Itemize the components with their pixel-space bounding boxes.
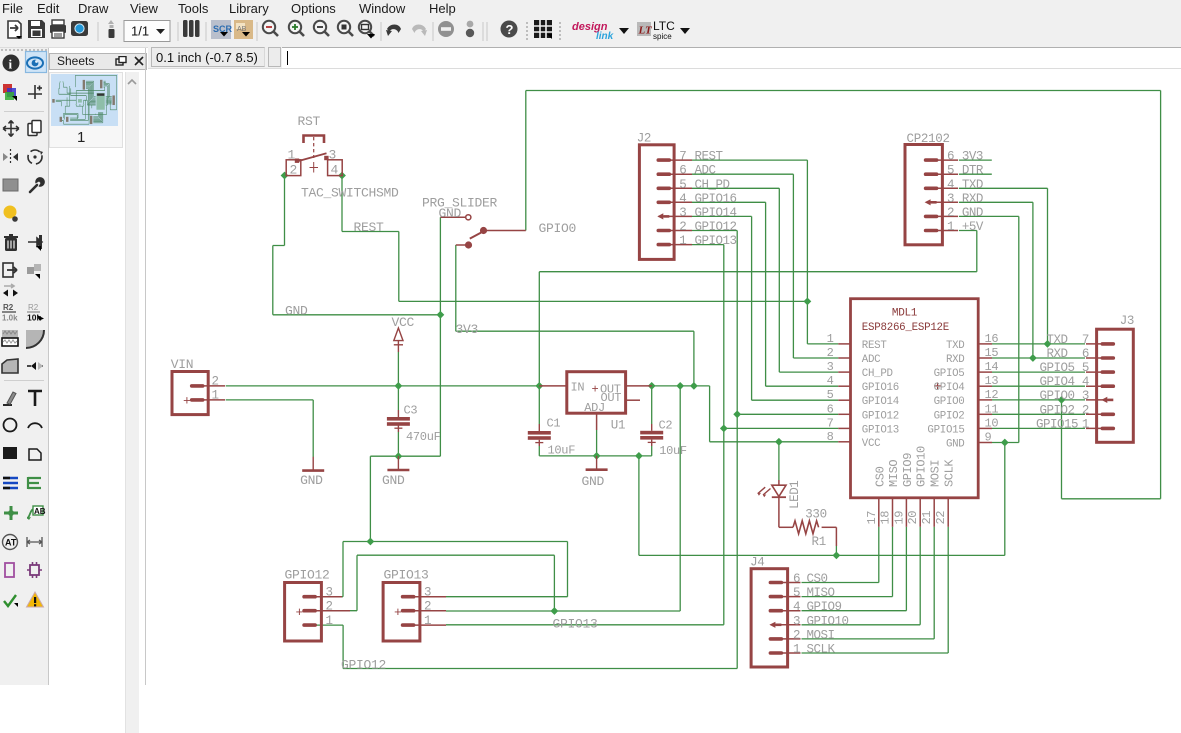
svg-text:GND: GND <box>439 206 462 221</box>
svg-text:4: 4 <box>793 600 800 614</box>
svg-text:J3: J3 <box>1120 314 1134 328</box>
svg-text:3: 3 <box>793 614 800 628</box>
svg-text:17: 17 <box>865 511 879 525</box>
svg-text:GPIO15: GPIO15 <box>927 424 964 436</box>
svg-text:VIN: VIN <box>171 357 194 372</box>
svg-text:ESP8266_ESP12E: ESP8266_ESP12E <box>862 322 949 334</box>
svg-text:GPIO0: GPIO0 <box>1039 389 1074 403</box>
svg-text:TXD: TXD <box>962 178 983 192</box>
svg-text:2: 2 <box>827 346 834 360</box>
svg-text:LT: LT <box>638 25 654 37</box>
svg-text:GPIO12: GPIO12 <box>862 410 899 422</box>
svg-text:GPIO10: GPIO10 <box>807 614 849 628</box>
svg-text:IN: IN <box>571 381 585 395</box>
svg-text:7: 7 <box>827 416 834 430</box>
svg-text:10uF: 10uF <box>548 444 576 458</box>
svg-text:+: + <box>592 382 599 396</box>
svg-text:1: 1 <box>793 643 800 657</box>
svg-text:RXD: RXD <box>946 354 965 366</box>
svg-text:TXD: TXD <box>1046 333 1067 347</box>
svg-text:CP2102: CP2102 <box>907 132 950 146</box>
svg-text:GND: GND <box>300 473 323 488</box>
svg-text:GPIO9: GPIO9 <box>807 600 842 614</box>
svg-text:GPIO13: GPIO13 <box>862 424 899 436</box>
svg-text:ADJ: ADJ <box>584 401 605 415</box>
svg-text:SCLK: SCLK <box>807 643 836 657</box>
svg-text:SCLK: SCLK <box>943 459 957 487</box>
svg-text:CS0: CS0 <box>873 466 887 487</box>
svg-text:VCC: VCC <box>862 438 881 450</box>
svg-text:1: 1 <box>212 389 219 403</box>
svg-text:C1: C1 <box>547 417 561 431</box>
svg-text:GPIO10: GPIO10 <box>915 446 929 487</box>
svg-text:GPIO0: GPIO0 <box>539 221 577 236</box>
svg-text:3: 3 <box>424 586 431 600</box>
svg-text:GPIO2: GPIO2 <box>934 410 965 422</box>
svg-text:3V3: 3V3 <box>962 150 983 164</box>
svg-text:GPIO5: GPIO5 <box>934 368 965 380</box>
svg-text:MISO: MISO <box>807 586 835 600</box>
svg-text:RST: RST <box>298 114 321 129</box>
svg-text:2: 2 <box>679 220 686 234</box>
svg-text:2: 2 <box>793 628 800 642</box>
svg-text:21: 21 <box>920 511 934 525</box>
svg-text:MISO: MISO <box>887 460 901 487</box>
svg-text:9: 9 <box>985 431 992 445</box>
svg-text:6: 6 <box>947 150 954 164</box>
svg-text:GPIO15: GPIO15 <box>1036 417 1078 431</box>
svg-text:13: 13 <box>985 374 999 388</box>
svg-text:2: 2 <box>212 375 219 389</box>
svg-text:1: 1 <box>679 234 686 248</box>
svg-text:CH_PD: CH_PD <box>695 178 730 192</box>
svg-text:AT: AT <box>5 538 17 548</box>
svg-text:GPIO5: GPIO5 <box>1039 361 1074 375</box>
svg-text:5: 5 <box>679 178 686 192</box>
svg-text:3: 3 <box>329 148 337 163</box>
svg-text:GND: GND <box>582 474 605 489</box>
svg-text:5: 5 <box>827 388 834 402</box>
svg-text:12: 12 <box>985 388 999 402</box>
svg-text:TAC_SWITCHSMD: TAC_SWITCHSMD <box>301 186 399 201</box>
svg-text:1: 1 <box>1082 417 1089 431</box>
svg-text:1: 1 <box>827 332 834 346</box>
svg-text:REST: REST <box>862 340 888 352</box>
svg-text:spice: spice <box>653 32 672 41</box>
svg-text:330: 330 <box>805 508 827 522</box>
svg-text:DTR: DTR <box>962 164 984 178</box>
svg-text:470uF: 470uF <box>406 430 441 444</box>
svg-text:1.0k: 1.0k <box>2 314 18 323</box>
svg-text:AB: AB <box>34 507 46 516</box>
svg-text:5: 5 <box>793 586 800 600</box>
svg-text:15: 15 <box>985 346 999 360</box>
svg-text:7: 7 <box>679 150 686 164</box>
svg-text:2: 2 <box>947 206 954 220</box>
svg-text:R1: R1 <box>812 535 826 549</box>
svg-text:AB: AB <box>237 26 247 33</box>
svg-text:2: 2 <box>424 600 431 614</box>
svg-text:GND: GND <box>285 304 308 319</box>
svg-text:CS0: CS0 <box>807 572 828 586</box>
svg-text:1: 1 <box>326 614 333 628</box>
svg-text:1: 1 <box>288 148 296 163</box>
svg-text:GPIO14: GPIO14 <box>695 206 737 220</box>
svg-text:GND: GND <box>382 473 405 488</box>
svg-text:REST: REST <box>695 150 724 164</box>
svg-text:+: + <box>296 605 304 620</box>
svg-text:6: 6 <box>1082 347 1089 361</box>
svg-text:4: 4 <box>679 192 686 206</box>
svg-text:1/1: 1/1 <box>131 24 149 39</box>
svg-text:2: 2 <box>1082 403 1089 417</box>
svg-text:22: 22 <box>934 511 948 525</box>
svg-text:ADC: ADC <box>695 164 716 178</box>
svg-text:6: 6 <box>793 572 800 586</box>
svg-text:GPIO4: GPIO4 <box>1039 375 1074 389</box>
svg-text:GPIO13: GPIO13 <box>384 568 429 583</box>
svg-text:RXD: RXD <box>1046 347 1067 361</box>
svg-text:3: 3 <box>326 586 333 600</box>
svg-text:C3: C3 <box>404 403 418 417</box>
svg-text:J2: J2 <box>637 132 651 146</box>
svg-text:J4: J4 <box>750 556 764 570</box>
svg-text:CH_PD: CH_PD <box>862 368 893 380</box>
svg-text:6: 6 <box>679 164 686 178</box>
svg-text:VCC: VCC <box>392 315 415 330</box>
svg-text:1: 1 <box>424 614 431 628</box>
svg-text:19: 19 <box>892 511 906 525</box>
svg-text:GPIO0: GPIO0 <box>934 396 965 408</box>
svg-text:MOSI: MOSI <box>807 628 835 642</box>
svg-text:4: 4 <box>1082 375 1089 389</box>
svg-text:ADC: ADC <box>862 354 881 366</box>
svg-text:5: 5 <box>1082 361 1089 375</box>
svg-text:7: 7 <box>1082 333 1089 347</box>
svg-text:GPIO13: GPIO13 <box>695 234 737 248</box>
svg-text:R2: R2 <box>28 303 39 312</box>
svg-text:8: 8 <box>827 430 834 444</box>
svg-text:i: i <box>9 57 13 72</box>
svg-text:GND: GND <box>962 206 983 220</box>
svg-text:5: 5 <box>947 164 954 178</box>
svg-text:3: 3 <box>947 192 954 206</box>
svg-text:3: 3 <box>827 360 834 374</box>
svg-text:GPIO4: GPIO4 <box>934 382 965 394</box>
svg-text:GPIO13: GPIO13 <box>553 617 598 632</box>
svg-text:GPIO12: GPIO12 <box>695 220 737 234</box>
svg-text:GPIO16: GPIO16 <box>695 192 737 206</box>
svg-text:+: + <box>183 394 191 409</box>
svg-text:1: 1 <box>947 220 954 234</box>
svg-text:+5V: +5V <box>962 220 984 234</box>
svg-text:+: + <box>394 605 402 620</box>
svg-text:10uF: 10uF <box>659 444 687 458</box>
svg-text:GPIO16: GPIO16 <box>862 382 899 394</box>
svg-text:TXD: TXD <box>946 340 965 352</box>
svg-text:4: 4 <box>827 374 834 388</box>
svg-text:R2: R2 <box>3 303 14 312</box>
svg-text:14: 14 <box>985 360 999 374</box>
svg-text:4: 4 <box>331 163 339 178</box>
svg-text:?: ? <box>506 22 514 37</box>
svg-text:C2: C2 <box>659 418 673 432</box>
svg-text:6: 6 <box>827 402 834 416</box>
svg-text:16: 16 <box>985 332 999 346</box>
svg-text:RXD: RXD <box>962 192 983 206</box>
svg-text:GND: GND <box>946 439 965 451</box>
svg-text:link: link <box>596 31 614 42</box>
svg-text:4: 4 <box>947 178 954 192</box>
svg-text:3: 3 <box>679 206 686 220</box>
svg-text:GPIO9: GPIO9 <box>901 453 915 487</box>
svg-text:REST: REST <box>354 220 385 235</box>
svg-text:2: 2 <box>290 163 298 178</box>
svg-text:LED1: LED1 <box>788 481 802 509</box>
svg-text:2: 2 <box>326 600 333 614</box>
svg-text:3: 3 <box>1082 389 1089 403</box>
svg-text:3V3: 3V3 <box>456 322 479 337</box>
svg-text:10: 10 <box>985 416 999 430</box>
svg-text:11: 11 <box>985 402 999 416</box>
svg-text:GPIO2: GPIO2 <box>1039 403 1074 417</box>
svg-text:MOSI: MOSI <box>929 460 943 487</box>
svg-text:GPIO12: GPIO12 <box>341 658 386 673</box>
svg-text:U1: U1 <box>611 418 625 432</box>
svg-text:20: 20 <box>906 511 920 525</box>
svg-text:MDL1: MDL1 <box>892 307 918 319</box>
svg-text:GPIO14: GPIO14 <box>862 396 899 408</box>
svg-text:GPIO12: GPIO12 <box>285 568 330 583</box>
svg-text:18: 18 <box>879 511 893 525</box>
svg-text:LTC: LTC <box>653 19 675 33</box>
